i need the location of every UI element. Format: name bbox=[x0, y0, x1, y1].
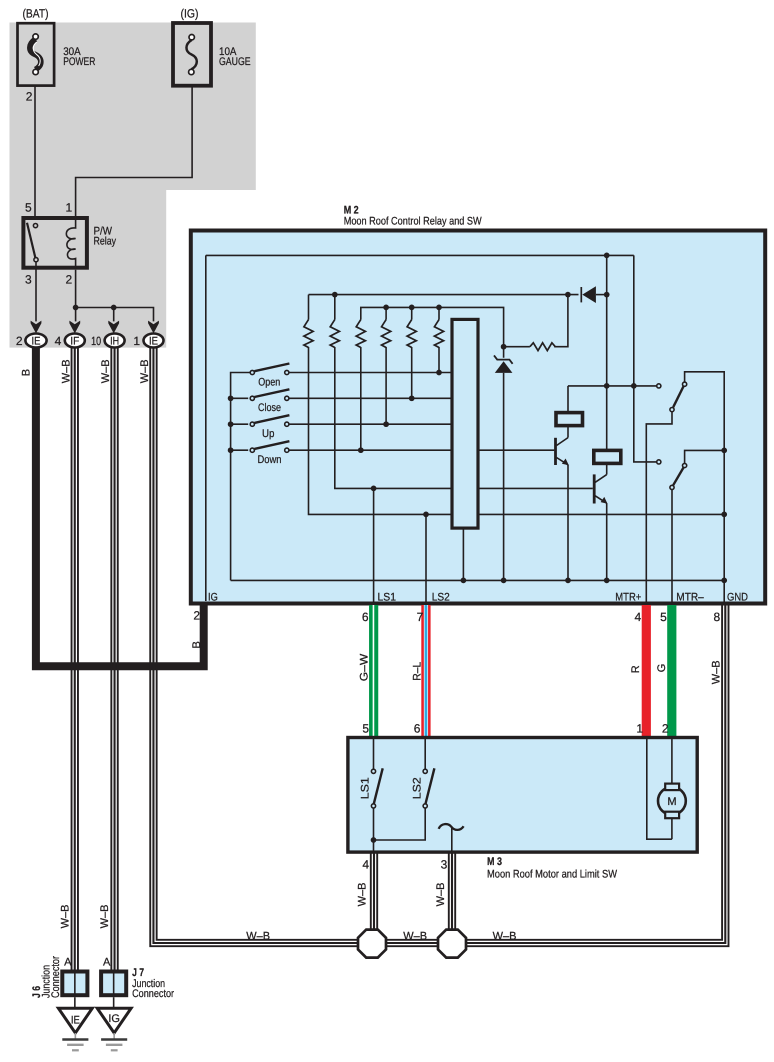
svg-text:6: 6 bbox=[362, 610, 369, 624]
svg-text:W–B: W–B bbox=[99, 905, 111, 929]
svg-text:3: 3 bbox=[441, 858, 448, 872]
resistor R1 bbox=[304, 320, 313, 348]
wire drop to IH arrow bbox=[113, 308, 115, 322]
junction dots inside M2 bbox=[228, 253, 727, 584]
svg-text:1: 1 bbox=[636, 722, 643, 736]
wire: R1 top lead bbox=[308, 295, 310, 320]
IC block bbox=[452, 319, 478, 528]
wire: Open row to IC bbox=[289, 372, 452, 374]
wire: R7 left lead bbox=[504, 346, 530, 348]
node: branch dots bbox=[73, 305, 79, 311]
wire: LS2 top lead bbox=[424, 739, 426, 769]
svg-text:W–B: W–B bbox=[710, 660, 722, 684]
wire: R2 bottom lead to LS1 row bbox=[335, 347, 452, 488]
wire: diode row bbox=[309, 294, 579, 296]
svg-text:IH: IH bbox=[110, 335, 119, 347]
wire W-B from IF connector to J6 bbox=[72, 348, 78, 970]
svg-text:7: 7 bbox=[417, 610, 424, 624]
wire: coil1 link upper bbox=[568, 386, 657, 413]
wire: R6 top lead bbox=[438, 307, 440, 319]
motor M bbox=[658, 784, 686, 819]
wire: bottom internal bus bbox=[231, 579, 725, 581]
octagon junction 2 bbox=[438, 930, 466, 958]
wire: R2 top lead bbox=[334, 295, 336, 320]
wire: x633.8 vertical to SW-B fixed contact bbox=[634, 255, 657, 462]
fuse 10A GAUGE bbox=[173, 23, 211, 86]
svg-text:LS2: LS2 bbox=[432, 592, 450, 604]
svg-text:Moon Roof Motor and Limit SW: Moon Roof Motor and Limit SW bbox=[487, 868, 618, 880]
zener diode ZD1 bbox=[494, 355, 513, 373]
wire: zener lower lead to bottom bus bbox=[503, 373, 505, 581]
junction connector J6 bbox=[62, 972, 87, 996]
wire: LS1 pin vertical bbox=[373, 488, 375, 604]
svg-text:4: 4 bbox=[635, 610, 642, 624]
wire: coil2 to Q2 collector bbox=[606, 463, 608, 475]
wire: switch left bus bbox=[231, 373, 251, 581]
svg-text:POWER: POWER bbox=[63, 56, 95, 68]
junction connector J7 bbox=[101, 972, 126, 996]
wire R-L : M2 LS2 to M3 bbox=[421, 605, 430, 738]
wire: R5 top lead bbox=[411, 307, 413, 319]
relay contact SW-A bbox=[657, 382, 687, 412]
svg-text:Moon Roof Control Relay and SW: Moon Roof Control Relay and SW bbox=[344, 216, 483, 228]
transistor Q1 bbox=[556, 438, 569, 466]
wire: Q2 base row from IC bbox=[478, 487, 593, 489]
connector oval IE pin1 bbox=[144, 334, 164, 348]
svg-text:MTR–: MTR– bbox=[676, 592, 704, 604]
svg-text:2: 2 bbox=[26, 90, 33, 104]
diode D1 bbox=[581, 286, 596, 303]
svg-text:10: 10 bbox=[91, 334, 101, 348]
svg-text:Open: Open bbox=[258, 376, 280, 388]
svg-text:1: 1 bbox=[133, 334, 140, 348]
svg-text:W–B: W–B bbox=[246, 930, 270, 942]
wire: MTR- path from SW-B bbox=[671, 489, 673, 604]
M3 Moon Roof Motor and Limit SW box bbox=[348, 738, 697, 853]
wire: R3 bottom lead bbox=[360, 347, 362, 450]
svg-text:B: B bbox=[191, 641, 203, 648]
wire W-B from M3 pin3 to junction bbox=[449, 851, 455, 936]
wire W-B from M3 pin4 to junction bbox=[371, 851, 377, 936]
wire: relay pin 3 to connector arrow bbox=[35, 262, 37, 322]
wire: R1 bottom lead to LS2 row bbox=[309, 347, 453, 514]
svg-text:2: 2 bbox=[662, 722, 669, 736]
ground IG bbox=[97, 1008, 131, 1050]
wire: Q1 emitter vertical bbox=[567, 465, 569, 581]
wire: Close row to IC bbox=[289, 397, 452, 399]
svg-text:1: 1 bbox=[66, 201, 73, 215]
svg-text:IE: IE bbox=[32, 335, 41, 347]
wire: top bus bbox=[206, 254, 634, 256]
wire: Up switch left stub bbox=[231, 423, 249, 425]
arrow into IE (pin 2) bbox=[31, 321, 159, 334]
svg-text:G–W: G–W bbox=[358, 653, 370, 681]
wire: Down row to IC bbox=[289, 449, 452, 451]
svg-text:6: 6 bbox=[414, 722, 421, 736]
wire: relay pin 2 branch to IF IH IE arrows bbox=[76, 270, 154, 322]
wire: R7 branch vertical bbox=[554, 295, 568, 347]
wire: SW-B pivot link bbox=[685, 450, 725, 463]
svg-text:R–L: R–L bbox=[412, 662, 424, 681]
wire G : M2 MTR- to M3 bbox=[667, 605, 676, 738]
wire: SW-A pivot to GND vertical bbox=[685, 372, 725, 604]
rotated wire labels bbox=[20, 359, 722, 998]
wire: IC bottom lead bbox=[462, 528, 464, 580]
resistor R4 bbox=[382, 320, 391, 348]
svg-text:M 2: M 2 bbox=[344, 205, 359, 217]
switch Up bbox=[250, 415, 289, 426]
svg-text:(BAT): (BAT) bbox=[23, 7, 49, 21]
svg-text:3: 3 bbox=[25, 273, 32, 287]
ground IE bbox=[58, 1008, 92, 1050]
connector oval IH pin10 bbox=[105, 334, 125, 348]
wire: Up row to IC bbox=[289, 423, 452, 425]
wire B thick: IE connector to M2 IG pin bbox=[36, 346, 204, 666]
wire: x606.7 main vertical bbox=[606, 255, 608, 450]
wire: J7 to ground bbox=[113, 997, 115, 1008]
wire: Down switch left stub bbox=[231, 449, 249, 451]
limit switch LS2 bbox=[423, 768, 434, 808]
svg-text:Connector: Connector bbox=[132, 988, 174, 1000]
svg-text:IE: IE bbox=[149, 335, 158, 347]
svg-text:R: R bbox=[630, 665, 642, 673]
svg-text:Close: Close bbox=[258, 402, 281, 414]
wire R : M2 MTR+ to M3 bbox=[642, 605, 651, 738]
wire: LS2 pin vertical bbox=[425, 514, 427, 604]
svg-text:2: 2 bbox=[193, 609, 200, 623]
connector oval IF pin4 bbox=[65, 334, 85, 348]
wire drop to IF arrow bbox=[75, 308, 77, 322]
wire: LS1 top lead bbox=[373, 739, 375, 769]
wire W-B from IH connector to J7 bbox=[111, 348, 117, 970]
svg-text:5: 5 bbox=[362, 722, 369, 736]
svg-text:W–B: W–B bbox=[435, 883, 447, 907]
svg-text:LS1: LS1 bbox=[360, 777, 372, 799]
svg-text:IF: IF bbox=[70, 335, 79, 347]
transistor Q2 bbox=[594, 474, 607, 503]
resistor R5 bbox=[407, 320, 416, 348]
wire: Q2 emitter vertical bbox=[606, 503, 608, 580]
wire: Q1 base row from IC bbox=[478, 449, 554, 451]
svg-text:IE: IE bbox=[71, 1015, 80, 1027]
wire: motor lead from pin 2 bbox=[671, 739, 673, 784]
svg-text:W–B: W–B bbox=[356, 883, 368, 907]
wire: fuse BAT to relay pin 5 bbox=[34, 74, 36, 216]
switch Open bbox=[250, 364, 289, 375]
wire: R5 bottom lead bbox=[411, 347, 413, 398]
connector oval IE pin2 bbox=[25, 334, 46, 348]
svg-text:4: 4 bbox=[362, 858, 369, 872]
svg-text:Down: Down bbox=[258, 454, 282, 466]
node: M3 junction dot bbox=[371, 837, 377, 843]
svg-text:W–B: W–B bbox=[493, 930, 517, 942]
svg-text:LS2: LS2 bbox=[411, 777, 423, 799]
svg-text:IG: IG bbox=[108, 1013, 120, 1025]
relay P/W bbox=[23, 218, 87, 269]
grey harness region bbox=[10, 23, 256, 348]
wire: motor lead from pin 1 bbox=[647, 739, 672, 839]
svg-text:(IG): (IG) bbox=[181, 7, 199, 21]
resistor R7 horizontal bbox=[530, 343, 555, 351]
svg-text:W–B: W–B bbox=[100, 359, 112, 383]
relay coil box K1 bbox=[556, 413, 583, 426]
wire: R6 bottom lead bbox=[438, 347, 440, 373]
resistor R2 bbox=[330, 320, 339, 348]
wire: Close switch left stub bbox=[231, 397, 249, 399]
resistor R6 bbox=[434, 320, 443, 348]
wire: breaker pin 3 bbox=[451, 828, 453, 853]
svg-text:W–B: W–B bbox=[403, 930, 427, 942]
fuse 30A POWER bbox=[18, 23, 55, 85]
svg-text:5: 5 bbox=[25, 201, 32, 215]
wire: J6 to ground bbox=[74, 997, 76, 1008]
relay contact SW-B bbox=[657, 460, 687, 490]
svg-text:Up: Up bbox=[262, 428, 275, 440]
relay coil box K2 bbox=[594, 450, 621, 463]
wire: coil1 to Q1 collector bbox=[567, 425, 569, 438]
svg-text:W–B: W–B bbox=[139, 359, 151, 383]
wire: LS1 bottom to pin 4 bbox=[373, 808, 375, 852]
svg-text:IG: IG bbox=[208, 592, 218, 604]
svg-text:LS1: LS1 bbox=[378, 592, 397, 604]
svg-text:W–B: W–B bbox=[60, 359, 72, 383]
wire: R4 bottom lead bbox=[385, 347, 387, 424]
wire: MTR+ path from SW-A bbox=[646, 412, 672, 604]
wire: motor bottom lead bbox=[671, 818, 673, 839]
svg-text:G: G bbox=[656, 664, 668, 673]
wire: LS2 bottom link bbox=[374, 808, 426, 840]
wire: IG vertical bus bbox=[205, 255, 207, 601]
svg-text:5: 5 bbox=[660, 610, 667, 624]
limit switch LS1 bbox=[371, 768, 382, 808]
svg-text:A: A bbox=[103, 957, 111, 969]
wire: LS2 row from IC to GND vertical bbox=[478, 513, 724, 515]
svg-text:GAUGE: GAUGE bbox=[219, 56, 251, 68]
svg-text:MTR+: MTR+ bbox=[615, 592, 641, 604]
svg-text:M: M bbox=[667, 796, 676, 808]
octagon junction 1 bbox=[358, 930, 386, 958]
svg-text:2: 2 bbox=[66, 273, 73, 287]
switch Close bbox=[250, 389, 289, 400]
svg-text:W–B: W–B bbox=[59, 905, 71, 929]
svg-text:M 3: M 3 bbox=[487, 856, 502, 868]
svg-text:4: 4 bbox=[55, 334, 62, 348]
wire G-W : M2 LS1 to M3 bbox=[369, 605, 378, 738]
wire: R3-R6 top bus bbox=[361, 307, 504, 357]
circuit breaker squiggle bbox=[439, 824, 464, 830]
wire: R4 top lead bbox=[385, 307, 387, 319]
svg-text:Relay: Relay bbox=[94, 235, 117, 247]
svg-text:B: B bbox=[20, 369, 32, 376]
svg-text:2: 2 bbox=[16, 334, 23, 348]
switch Down bbox=[250, 441, 289, 452]
resistor R3 bbox=[356, 320, 365, 348]
svg-text:GND: GND bbox=[727, 592, 748, 604]
M2 Moon Roof Control Relay and SW box bbox=[191, 231, 765, 604]
wire W-B from IE connector to bottom bus bbox=[150, 348, 728, 947]
svg-text:A: A bbox=[64, 957, 72, 969]
svg-text:Connector: Connector bbox=[50, 956, 62, 998]
svg-text:8: 8 bbox=[714, 610, 721, 624]
wire: fuse IG to relay pin 1 bbox=[76, 74, 193, 216]
